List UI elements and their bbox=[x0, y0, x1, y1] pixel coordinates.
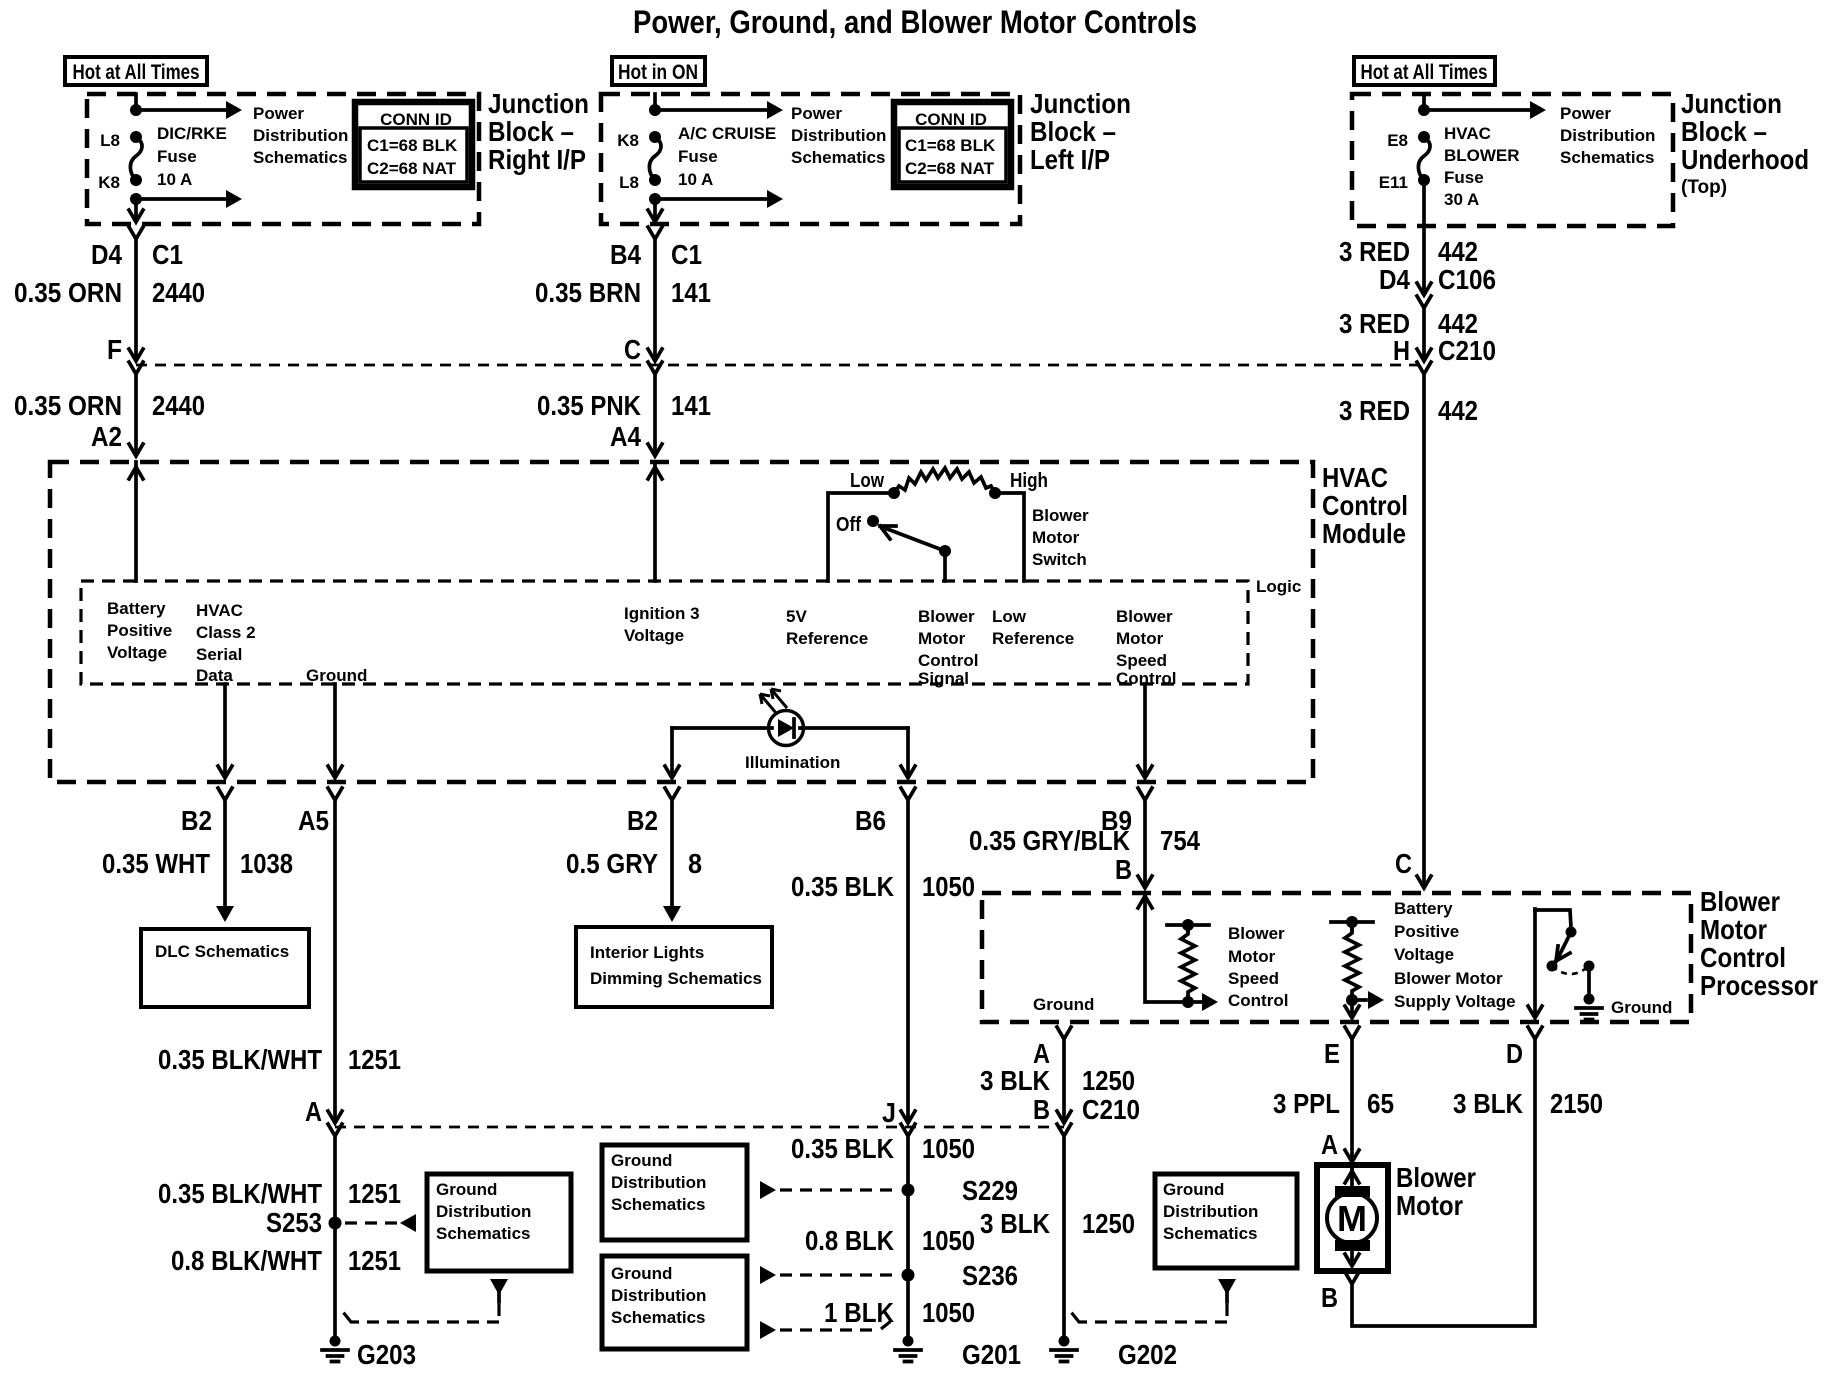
CONN ID table (JB1) bbox=[355, 102, 472, 187]
CONN ID table (JB2) bbox=[894, 102, 1011, 187]
wire: speed control input inside BMCP bbox=[1138, 893, 1218, 1011]
label: HVAC Control Module bbox=[1322, 462, 1408, 549]
label: Power Distribution Schematics (JB2) bbox=[791, 104, 886, 167]
svg-text:C2=68 NAT: C2=68 NAT bbox=[367, 159, 457, 178]
labels D4 / C1 bbox=[91, 239, 183, 270]
svg-text:0.8 BLK/WHT: 0.8 BLK/WHT bbox=[171, 1245, 322, 1276]
svg-text:Low: Low bbox=[850, 470, 884, 492]
wire: supply voltage exit to E bbox=[1345, 1000, 1359, 1018]
wire: arrow to power distribution (JB2 top) bbox=[655, 101, 783, 119]
svg-text:Control: Control bbox=[1322, 490, 1408, 521]
resistor: speed control pull-up bbox=[1167, 919, 1209, 1008]
labels 0.35 BLK/WHT | 1251 (below A) bbox=[158, 1178, 401, 1209]
labels 1 BLK | 1050 bbox=[824, 1297, 975, 1328]
wire: 0.35 WHT 1038 bbox=[216, 800, 234, 922]
svg-text:0.35 BLK: 0.35 BLK bbox=[791, 871, 894, 902]
wire: 3 BLK 1250 to G202 bbox=[1062, 1136, 1066, 1337]
svg-text:Hot in ON: Hot in ON bbox=[618, 61, 698, 84]
label: Power Distribution Schematics (JB3) bbox=[1560, 104, 1655, 167]
label: HVAC Class 2 Serial Data bbox=[196, 601, 256, 685]
svg-text:E: E bbox=[1324, 1038, 1340, 1069]
svg-text:1050: 1050 bbox=[922, 1133, 975, 1164]
label: Blower Motor Control Signal bbox=[918, 607, 978, 688]
svg-text:A: A bbox=[1321, 1129, 1338, 1160]
wire: 0.35 BRN 141 upper segment bbox=[653, 239, 657, 357]
svg-text:G203: G203 bbox=[357, 1339, 416, 1370]
svg-text:Motor: Motor bbox=[1700, 914, 1767, 945]
svg-text:CONN ID: CONN ID bbox=[915, 110, 987, 129]
svg-text:Dimming Schematics: Dimming Schematics bbox=[590, 969, 762, 988]
svg-text:3 RED: 3 RED bbox=[1339, 395, 1410, 426]
svg-text:Control: Control bbox=[1700, 942, 1786, 973]
svg-text:1251: 1251 bbox=[348, 1245, 401, 1276]
blower motor control processor dashed box bbox=[982, 893, 1691, 1022]
connector pin A2 chevron bbox=[129, 444, 143, 456]
labels 0.35 BLK/WHT | 1251 bbox=[158, 1044, 401, 1075]
svg-text:E8: E8 bbox=[1387, 131, 1408, 150]
labels B9 / 0.35 GRY/BLK | 754 / B bbox=[969, 805, 1200, 885]
wire: 0.35 ORN 2440 lower segment bbox=[134, 374, 138, 452]
svg-text:Schematics: Schematics bbox=[611, 1308, 706, 1327]
svg-text:Right I/P: Right I/P bbox=[488, 144, 586, 175]
svg-text:K8: K8 bbox=[617, 131, 639, 150]
svg-text:Switch: Switch bbox=[1032, 550, 1087, 569]
svg-text:Speed: Speed bbox=[1116, 651, 1167, 670]
svg-text:C: C bbox=[624, 334, 641, 365]
labels B2 / 0.35 WHT | 1038 bbox=[102, 805, 293, 879]
svg-text:B2: B2 bbox=[181, 805, 212, 836]
wire: switched ground to D bbox=[1528, 909, 1542, 1018]
svg-text:C1=68 BLK: C1=68 BLK bbox=[905, 136, 996, 155]
svg-text:Distribution: Distribution bbox=[253, 126, 348, 145]
fuse: DIC/RKE Fuse 10 A bbox=[130, 131, 142, 186]
svg-text:BLOWER: BLOWER bbox=[1444, 146, 1520, 165]
svg-text:Power: Power bbox=[1560, 104, 1611, 123]
svg-text:Motor: Motor bbox=[1032, 528, 1080, 547]
svg-text:Junction: Junction bbox=[1030, 88, 1131, 119]
ground (BMCP internal) bbox=[1576, 994, 1672, 1020]
box: Interior Lights Dimming Schematics bbox=[576, 927, 772, 1007]
wire: ignition 3 voltage entry bbox=[648, 462, 662, 581]
blower motor switch: high terminal node bbox=[989, 487, 1001, 499]
svg-text:Low: Low bbox=[992, 607, 1027, 626]
svg-text:Fuse: Fuse bbox=[157, 147, 197, 166]
svg-text:C210: C210 bbox=[1082, 1094, 1140, 1125]
svg-text:HVAC: HVAC bbox=[1322, 462, 1388, 493]
svg-text:Reference: Reference bbox=[992, 629, 1074, 648]
svg-text:S236: S236 bbox=[962, 1260, 1018, 1291]
svg-text:2150: 2150 bbox=[1550, 1088, 1603, 1119]
svg-text:A2: A2 bbox=[91, 421, 122, 452]
label: HVAC BLOWER Fuse 30 A bbox=[1444, 124, 1520, 209]
blower motor box bbox=[1317, 1165, 1388, 1271]
svg-text:Block –: Block – bbox=[1681, 116, 1767, 147]
svg-text:A: A bbox=[305, 1096, 322, 1127]
svg-text:C1: C1 bbox=[152, 239, 183, 270]
label: Low Reference bbox=[992, 607, 1074, 648]
svg-text:Blower: Blower bbox=[1228, 924, 1285, 943]
labels 0.35 BLK | 1050 (below J) bbox=[791, 1133, 975, 1164]
wire: 0.35 BLK 1050 to G201 bbox=[906, 1136, 910, 1337]
fuse: A/C CRUISE Fuse 10 A bbox=[649, 131, 661, 186]
svg-text:3 BLK: 3 BLK bbox=[1453, 1088, 1523, 1119]
label: Junction Block - Right I/P bbox=[488, 88, 589, 175]
wire: module ground exit bbox=[328, 684, 342, 778]
svg-text:Voltage: Voltage bbox=[107, 643, 167, 662]
svg-text:0.35 ORN: 0.35 ORN bbox=[14, 390, 122, 421]
label H / C210 bbox=[1393, 335, 1496, 366]
svg-text:DIC/RKE: DIC/RKE bbox=[157, 124, 227, 143]
svg-text:Ground: Ground bbox=[436, 1180, 497, 1199]
labels 0.8 BLK/WHT | 1251 bbox=[171, 1245, 401, 1276]
wire: JB3 feed from hot bbox=[1422, 94, 1426, 110]
wire: C input with chevron bbox=[1417, 876, 1431, 888]
box: Ground Distribution Schematics (S236) bbox=[602, 1256, 747, 1349]
labels 0.35 ORN | 2440 bbox=[14, 277, 205, 308]
blower motor switch: wiper node and stem bbox=[939, 545, 951, 581]
wire: arrow to power distribution (top) bbox=[136, 101, 242, 119]
svg-text:High: High bbox=[1010, 470, 1048, 492]
svg-text:Motor: Motor bbox=[918, 629, 966, 648]
BMCP relay switch lever bbox=[1556, 932, 1571, 961]
svg-text:C106: C106 bbox=[1438, 264, 1496, 295]
svg-text:Data: Data bbox=[196, 666, 233, 685]
BMCP ground contact bbox=[1584, 961, 1595, 994]
svg-text:10 A: 10 A bbox=[678, 170, 713, 189]
svg-text:Power: Power bbox=[253, 104, 304, 123]
svg-text:H: H bbox=[1393, 335, 1410, 366]
svg-text:Blower: Blower bbox=[1396, 1162, 1476, 1193]
labels 3 RED | 442 (row 1) bbox=[1339, 236, 1478, 267]
label: Hot in ON bbox=[612, 57, 705, 85]
svg-text:C2=68 NAT: C2=68 NAT bbox=[905, 159, 995, 178]
svg-text:Fuse: Fuse bbox=[1444, 168, 1484, 187]
node: JB1 top junction bbox=[130, 104, 142, 116]
svg-text:Module: Module bbox=[1322, 518, 1406, 549]
svg-text:CONN ID: CONN ID bbox=[380, 110, 452, 129]
svg-text:Blower Motor: Blower Motor bbox=[1394, 969, 1503, 988]
svg-text:Power, Ground, and Blower Moto: Power, Ground, and Blower Motor Controls bbox=[633, 4, 1197, 40]
svg-text:Power: Power bbox=[791, 104, 842, 123]
labels E / 3 PPL | 65 bbox=[1273, 1038, 1394, 1119]
svg-text:Junction: Junction bbox=[488, 88, 589, 119]
splice S229 bbox=[902, 1175, 1019, 1206]
label: Power Distribution Schematics (JB1) bbox=[253, 104, 348, 167]
svg-text:Junction: Junction bbox=[1681, 88, 1782, 119]
label: Blower Motor bbox=[1396, 1162, 1476, 1221]
svg-text:2440: 2440 bbox=[152, 277, 205, 308]
LED: illumination lamp bbox=[760, 689, 804, 746]
label: Blower Motor Speed Control bbox=[1116, 607, 1176, 688]
wire: 3 RED 442 from fuse to C106 bbox=[1422, 180, 1426, 291]
label: Ignition 3 Voltage bbox=[624, 604, 700, 645]
svg-text:Battery: Battery bbox=[107, 599, 166, 618]
labels A / 3 BLK | 1250 / B C210 bbox=[980, 1038, 1140, 1125]
blower motor switch: off contact bbox=[867, 515, 879, 527]
label: Blower Motor Speed Control (BMCP) bbox=[1228, 924, 1288, 1010]
svg-text:Processor: Processor bbox=[1700, 970, 1818, 1001]
node: JB2 top junction bbox=[649, 104, 661, 116]
wire: JB2 exit with pin arrow bbox=[648, 199, 662, 222]
svg-text:0.35 WHT: 0.35 WHT bbox=[102, 848, 210, 879]
ground G201 bbox=[895, 1336, 1021, 1371]
dashed relay throw arc bbox=[1552, 966, 1589, 974]
svg-text:Off: Off bbox=[836, 514, 861, 536]
svg-text:Motor: Motor bbox=[1228, 947, 1276, 966]
svg-text:S253: S253 bbox=[266, 1207, 322, 1238]
wire: JB2 feed from hot bbox=[653, 94, 657, 110]
svg-text:D4: D4 bbox=[91, 239, 122, 270]
svg-text:1038: 1038 bbox=[240, 848, 293, 879]
svg-text:Fuse: Fuse bbox=[678, 147, 718, 166]
wire: blower motor speed control exit bbox=[1138, 684, 1152, 778]
wire: motor return loop B to D bbox=[1352, 1039, 1535, 1326]
svg-text:0.35 BLK/WHT: 0.35 BLK/WHT bbox=[158, 1044, 322, 1075]
svg-text:0.35 ORN: 0.35 ORN bbox=[14, 277, 122, 308]
wire: 0.5 GRY 8 bbox=[663, 800, 681, 922]
svg-text:Schematics: Schematics bbox=[611, 1195, 706, 1214]
svg-text:Blower: Blower bbox=[918, 607, 975, 626]
connector pin C1 (JB2 exit chevron) bbox=[648, 227, 662, 239]
node: JB3 junction bbox=[1418, 104, 1430, 116]
svg-text:8: 8 bbox=[688, 848, 702, 879]
label: Hot at All Times (left) bbox=[65, 57, 207, 85]
blower motor switch: low terminal node bbox=[888, 487, 900, 499]
node: JB2 bottom junction bbox=[649, 193, 661, 205]
blower motor switch: low reference rail bbox=[995, 493, 1024, 581]
dashed link box to S229 bbox=[760, 1181, 898, 1199]
logic dashed box bbox=[81, 581, 1248, 684]
svg-text:K8: K8 bbox=[98, 173, 120, 192]
svg-text:A4: A4 bbox=[610, 421, 641, 452]
svg-text:F: F bbox=[107, 334, 122, 365]
label D / 3 BLK | 2150 bbox=[1453, 1038, 1603, 1119]
label: Blower Motor Switch bbox=[1032, 506, 1089, 569]
connector pin B2 (serial data) bbox=[218, 788, 232, 800]
connector C (in-line) bbox=[648, 349, 662, 374]
wire: HVAC class 2 serial data exit bbox=[218, 684, 232, 778]
svg-text:Distribution: Distribution bbox=[1560, 126, 1655, 145]
label: Battery Positive Voltage bbox=[107, 599, 172, 662]
svg-text:A5: A5 bbox=[298, 805, 329, 836]
svg-text:B6: B6 bbox=[855, 805, 886, 836]
svg-text:Schematics: Schematics bbox=[436, 1224, 531, 1243]
svg-text:C210: C210 bbox=[1438, 335, 1496, 366]
ground G203 bbox=[322, 1336, 416, 1371]
labels 0.35 ORN | 2440 (below F) bbox=[14, 390, 205, 421]
dashed harness separator (upper) bbox=[136, 364, 1424, 367]
svg-text:0.5 GRY: 0.5 GRY bbox=[566, 848, 658, 879]
svg-text:Illumination: Illumination bbox=[745, 753, 840, 772]
svg-text:0.8 BLK: 0.8 BLK bbox=[805, 1225, 894, 1256]
svg-text:1 BLK: 1 BLK bbox=[824, 1297, 894, 1328]
svg-text:1050: 1050 bbox=[922, 1297, 975, 1328]
svg-text:3 BLK: 3 BLK bbox=[980, 1208, 1050, 1239]
labels 0.35 BRN | 141 bbox=[535, 277, 711, 308]
labels B6 / 0.35 BLK | 1050 bbox=[791, 805, 975, 902]
svg-text:Ground: Ground bbox=[1033, 995, 1094, 1014]
svg-text:Supply Voltage: Supply Voltage bbox=[1394, 992, 1516, 1011]
labels 3 RED | 442 (row 2) bbox=[1339, 308, 1478, 339]
svg-text:Left I/P: Left I/P bbox=[1030, 144, 1110, 175]
svg-text:Control: Control bbox=[1228, 991, 1288, 1010]
svg-text:Underhood: Underhood bbox=[1681, 144, 1809, 175]
svg-text:3 PPL: 3 PPL bbox=[1273, 1088, 1340, 1119]
svg-text:3 RED: 3 RED bbox=[1339, 236, 1410, 267]
svg-text:Interior Lights: Interior Lights bbox=[590, 943, 704, 962]
svg-text:L8: L8 bbox=[100, 131, 120, 150]
svg-text:Blower: Blower bbox=[1116, 607, 1173, 626]
splice S253 bbox=[266, 1207, 342, 1238]
connector pin A4 chevron bbox=[648, 444, 662, 456]
label: 5V Reference bbox=[786, 607, 868, 648]
wire: 3 BLK 1250 upper bbox=[1062, 1039, 1066, 1119]
fuse: HVAC BLOWER Fuse 30 A bbox=[1418, 131, 1430, 186]
svg-text:Block –: Block – bbox=[1030, 116, 1116, 147]
wire: 0.35 BLK 1050 to J bbox=[906, 800, 910, 1119]
svg-text:Blower: Blower bbox=[1700, 886, 1780, 917]
svg-text:C1=68 BLK: C1=68 BLK bbox=[367, 136, 458, 155]
box: Ground Distribution Schematics (S229) bbox=[602, 1145, 747, 1240]
wire: 0.35 BLK/WHT 1251 to S253 bbox=[333, 1136, 337, 1337]
svg-text:Positive: Positive bbox=[1394, 922, 1459, 941]
labels D4 | C106 bbox=[1379, 264, 1496, 295]
svg-text:J: J bbox=[882, 1097, 896, 1128]
svg-text:B2: B2 bbox=[627, 805, 658, 836]
svg-text:Distribution: Distribution bbox=[436, 1202, 531, 1221]
blower motor switch: wiper lever bbox=[880, 526, 945, 551]
label: Blower Motor Control Processor bbox=[1700, 886, 1818, 1001]
svg-text:1050: 1050 bbox=[922, 871, 975, 902]
label: Junction Block - Left I/P bbox=[1030, 88, 1131, 175]
wire: arrow to power distribution (JB2 bottom) bbox=[655, 190, 783, 208]
svg-text:141: 141 bbox=[671, 277, 711, 308]
connector pin E bbox=[1345, 1027, 1359, 1039]
wire: arrow to power distribution (JB3) bbox=[1424, 101, 1546, 119]
svg-text:Schematics: Schematics bbox=[1163, 1224, 1258, 1243]
connector pin B6 bbox=[901, 788, 915, 800]
svg-text:Voltage: Voltage bbox=[624, 626, 684, 645]
svg-text:Reference: Reference bbox=[786, 629, 868, 648]
svg-text:(Top): (Top) bbox=[1681, 177, 1727, 198]
svg-text:Logic: Logic bbox=[1256, 577, 1301, 596]
svg-text:Voltage: Voltage bbox=[1394, 945, 1454, 964]
connector J (in-line) bbox=[901, 1111, 915, 1136]
svg-text:B: B bbox=[1115, 854, 1132, 885]
labels B2 / 0.5 GRY | 8 bbox=[566, 805, 702, 879]
HVAC control module dashed box bbox=[50, 462, 1313, 782]
label: Junction Block - Underhood (Top) bbox=[1681, 88, 1809, 198]
svg-text:Schematics: Schematics bbox=[791, 148, 886, 167]
svg-text:Blower: Blower bbox=[1032, 506, 1089, 525]
connector pin C1 (JB1 exit chevron) bbox=[129, 227, 143, 239]
svg-text:Positive: Positive bbox=[107, 621, 172, 640]
connector H C210 (in-line) bbox=[1417, 349, 1431, 374]
box: DLC Schematics bbox=[141, 929, 309, 1007]
svg-text:D: D bbox=[1506, 1038, 1523, 1069]
junction block - left I/P dashed box bbox=[601, 94, 1020, 224]
motor: armature M bbox=[1327, 1193, 1377, 1243]
svg-text:Block –: Block – bbox=[488, 116, 574, 147]
connector pin B chevron (motor) bbox=[1345, 1272, 1359, 1284]
connector pin B9 bbox=[1138, 788, 1152, 800]
svg-text:G202: G202 bbox=[1118, 1339, 1177, 1370]
svg-text:Speed: Speed bbox=[1228, 969, 1279, 988]
labels 3 BLK | 1250 (below) bbox=[980, 1208, 1135, 1239]
wire: 3 RED 442 down to blower motor control processor bbox=[1422, 374, 1426, 884]
svg-text:1251: 1251 bbox=[348, 1178, 401, 1209]
svg-text:5V: 5V bbox=[786, 607, 807, 626]
label: A/C CRUISE Fuse 10 A bbox=[678, 124, 776, 189]
wire: illumination right leg bbox=[804, 728, 915, 778]
label: Hot at All Times (right) bbox=[1354, 57, 1495, 85]
svg-text:C1: C1 bbox=[671, 239, 702, 270]
junction block - right I/P dashed box bbox=[87, 94, 479, 224]
svg-text:Battery: Battery bbox=[1394, 899, 1453, 918]
svg-text:Motor: Motor bbox=[1396, 1190, 1463, 1221]
svg-text:Ignition 3: Ignition 3 bbox=[624, 604, 700, 623]
wire: arrow to power distribution (bottom) bbox=[136, 190, 242, 208]
svg-text:B: B bbox=[1321, 1282, 1338, 1313]
wire: illumination left leg bbox=[665, 728, 768, 778]
svg-text:Schematics: Schematics bbox=[253, 148, 348, 167]
connector pin A chevron (motor) bbox=[1345, 1150, 1359, 1162]
svg-text:B4: B4 bbox=[610, 239, 641, 270]
svg-text:0.35 GRY/BLK: 0.35 GRY/BLK bbox=[969, 825, 1130, 856]
wire: battery positive voltage entry bbox=[129, 462, 143, 581]
svg-text:Class 2: Class 2 bbox=[196, 623, 256, 642]
labels B4 / C1 bbox=[610, 239, 702, 270]
svg-text:Signal: Signal bbox=[918, 669, 969, 688]
motor: top lead bbox=[1345, 1165, 1359, 1186]
svg-text:Schematics: Schematics bbox=[1560, 148, 1655, 167]
node: JB1 bottom junction bbox=[130, 193, 142, 205]
svg-text:2440: 2440 bbox=[152, 390, 205, 421]
svg-text:HVAC: HVAC bbox=[196, 601, 243, 620]
svg-text:Distribution: Distribution bbox=[791, 126, 886, 145]
ground G202 bbox=[1051, 1336, 1177, 1371]
connector pin D bbox=[1528, 1027, 1542, 1039]
dashed link S253 to ground distribution bbox=[345, 1214, 416, 1232]
box: Ground Distribution Schematics (S253) bbox=[427, 1174, 571, 1271]
dashed link box to S236 bbox=[760, 1266, 898, 1284]
svg-text:1050: 1050 bbox=[922, 1225, 975, 1256]
svg-text:Distribution: Distribution bbox=[1163, 1202, 1258, 1221]
label: Battery Positive Voltage / Blower Motor Supply Voltage bbox=[1394, 899, 1516, 1011]
svg-text:Distribution: Distribution bbox=[611, 1173, 706, 1192]
wire: 0.35 GRY/BLK 754 bbox=[1138, 800, 1152, 888]
label: DIC/RKE Fuse 10 A bbox=[157, 124, 227, 189]
wire: blower motor supply voltage arrow bbox=[1352, 991, 1384, 1009]
svg-text:B: B bbox=[1033, 1094, 1050, 1125]
svg-text:1250: 1250 bbox=[1082, 1065, 1135, 1096]
wire: BMCP switch feed riser bbox=[1535, 910, 1571, 927]
resistor: blower switch resistor (Low-High) bbox=[894, 468, 995, 493]
svg-text:Distribution: Distribution bbox=[611, 1286, 706, 1305]
svg-text:Ground: Ground bbox=[1163, 1180, 1224, 1199]
labels 0.35 PNK | 141 bbox=[537, 390, 711, 421]
svg-text:A/C CRUISE: A/C CRUISE bbox=[678, 124, 776, 143]
svg-text:E11: E11 bbox=[1379, 173, 1408, 192]
wire: 3 PPL 65 bbox=[1350, 1039, 1354, 1158]
labels 3 RED | 442 (row 3) bbox=[1339, 395, 1478, 426]
svg-text:Hot at All Times: Hot at All Times bbox=[73, 61, 200, 84]
wire: 0.35 BLK/WHT 1251 upper bbox=[333, 800, 337, 1119]
BMCP relay switch pivot bbox=[1566, 927, 1577, 938]
svg-text:754: 754 bbox=[1160, 825, 1200, 856]
svg-text:1250: 1250 bbox=[1082, 1208, 1135, 1239]
svg-text:L8: L8 bbox=[619, 173, 639, 192]
